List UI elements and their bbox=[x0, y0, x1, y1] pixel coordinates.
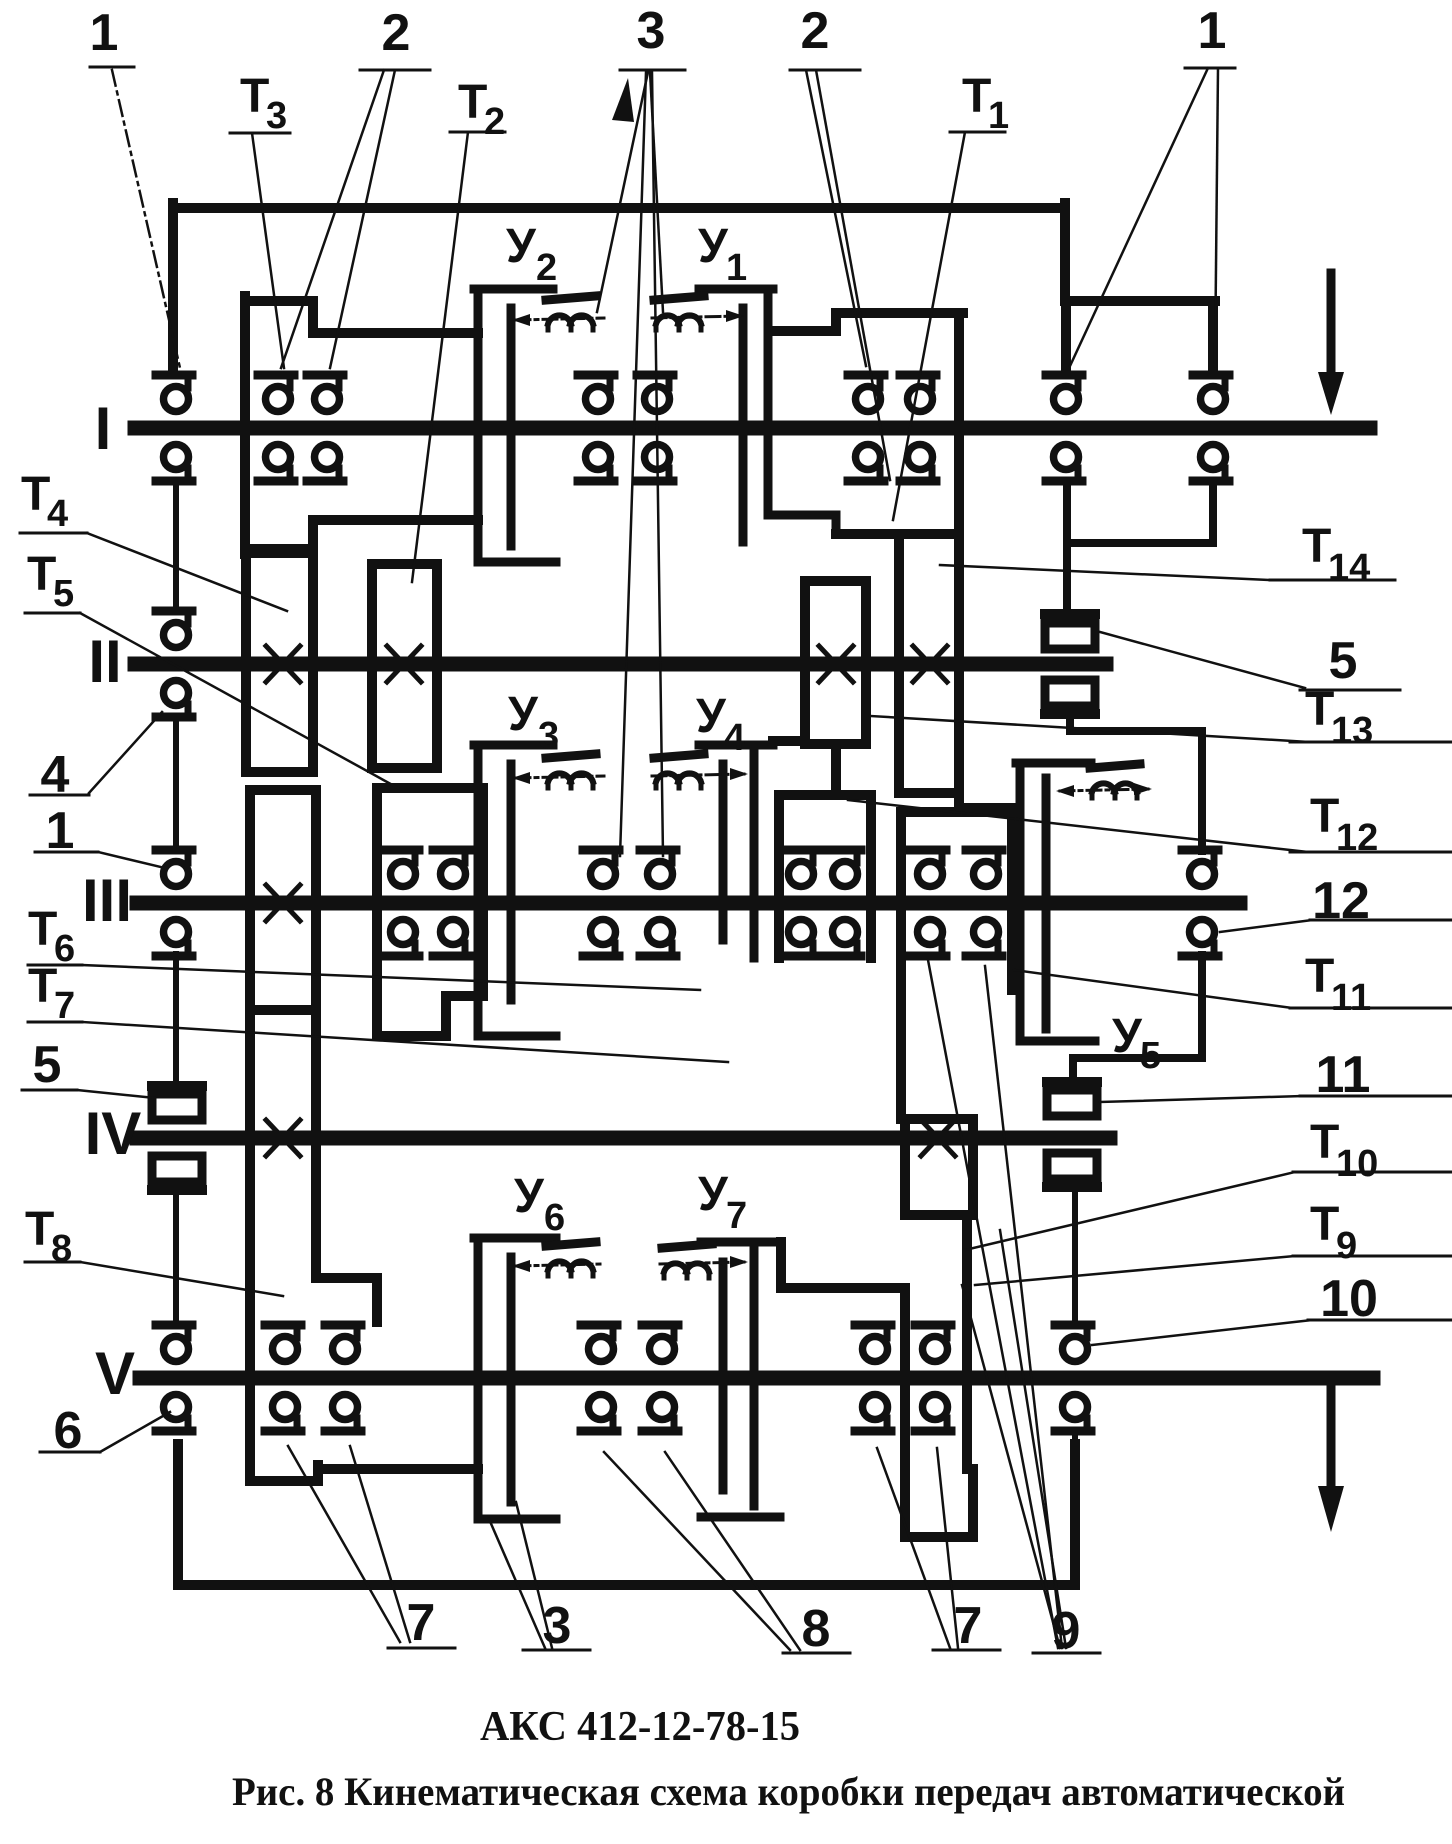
axis line right column bbox=[1072, 1191, 1078, 1585]
svg-text:3: 3 bbox=[538, 715, 559, 757]
leader 12 bbox=[1220, 920, 1312, 932]
bearing below shaft III x=603 bbox=[583, 920, 619, 957]
leader T9 bbox=[975, 1256, 1295, 1285]
leader 2 left bbox=[281, 70, 384, 368]
svg-text:11: 11 bbox=[1316, 1046, 1371, 1104]
svg-text:Т: Т bbox=[962, 70, 991, 123]
bearing below shaft V x=285 bbox=[265, 1395, 301, 1432]
bearing above shaft I x=1213 bbox=[1193, 375, 1229, 412]
bearing below shaft III x=1202 bbox=[1182, 920, 1218, 957]
bearing above shaft III x=845 bbox=[825, 850, 861, 887]
synchronizer cone x=1116 y=782 bbox=[1090, 764, 1140, 798]
svg-text:2: 2 bbox=[536, 247, 557, 289]
synchronizer U5 fork bbox=[1016, 763, 1095, 1041]
fixed joint X on shaft II x=836 bbox=[819, 646, 853, 682]
right X box at IV bbox=[905, 1119, 973, 1215]
leader 10 bbox=[1092, 1320, 1312, 1345]
svg-text:8: 8 bbox=[51, 1228, 72, 1270]
leader 5 right bbox=[1100, 632, 1305, 688]
svg-text:1: 1 bbox=[90, 4, 119, 62]
svg-text:Т: Т bbox=[28, 960, 57, 1013]
svg-text:7: 7 bbox=[54, 985, 75, 1027]
leader T4 bbox=[87, 533, 287, 611]
bearing below shaft III x=845 bbox=[825, 920, 861, 957]
synchronizer U4 fork bbox=[699, 745, 773, 958]
leader 3 top arrowhead bbox=[612, 78, 634, 122]
bearing above shaft I x=657 bbox=[637, 375, 673, 412]
svg-text:1: 1 bbox=[46, 802, 75, 860]
bearing above shaft III x=176 bbox=[156, 850, 192, 887]
svg-text:IV: IV bbox=[85, 1100, 142, 1167]
leader 6 bbox=[100, 1412, 170, 1452]
svg-text:АКС 412-12-78-15: АКС 412-12-78-15 bbox=[480, 1704, 800, 1750]
bearing below shaft V x=176 bbox=[156, 1395, 192, 1432]
bearing below shaft V x=935 bbox=[915, 1395, 951, 1432]
brake disc pack x=1070 y=693 bbox=[1045, 680, 1095, 706]
synchronizer U6 fork bbox=[474, 1238, 556, 1519]
brake pack right of shaft IV bbox=[1047, 1082, 1097, 1187]
fixed joint X on shaft III x=283 bbox=[266, 885, 300, 921]
svg-text:III: III bbox=[82, 867, 132, 934]
svg-text:2: 2 bbox=[801, 2, 830, 60]
bearing above shaft I x=1066 bbox=[1046, 375, 1082, 412]
bearing above shaft V x=1075 bbox=[1055, 1325, 1091, 1362]
bearing above shaft I x=598 bbox=[578, 375, 614, 412]
svg-text:1: 1 bbox=[726, 247, 747, 289]
leader T11 bbox=[1014, 970, 1292, 1008]
bearing below shaft V x=345 bbox=[325, 1395, 361, 1432]
synchronizer cone x=572 y=1260 bbox=[546, 1242, 596, 1276]
svg-text:4: 4 bbox=[724, 717, 745, 759]
leader T10 bbox=[965, 1172, 1295, 1250]
svg-text:4: 4 bbox=[47, 493, 68, 535]
bearing below shaft I x=278 bbox=[258, 445, 294, 482]
leader 1 top-left (dash-dot) bbox=[112, 70, 180, 368]
svg-text:У: У bbox=[696, 690, 727, 743]
fixed joint X on shaft IV x=283 bbox=[266, 1120, 300, 1156]
bearing above shaft I x=278 bbox=[258, 375, 294, 412]
bearing below shaft III x=403 bbox=[383, 920, 419, 957]
bearing above shaft III x=403 bbox=[383, 850, 419, 887]
svg-text:У: У bbox=[698, 1168, 729, 1221]
svg-text:У: У bbox=[1112, 1010, 1143, 1063]
leader T1 bbox=[893, 132, 965, 520]
bearing below shaft III x=660 bbox=[640, 920, 676, 957]
T10/T9 drum walls bottom right bbox=[781, 1215, 973, 1537]
T4 drum box bbox=[372, 564, 437, 768]
svg-text:Т: Т bbox=[1305, 950, 1334, 1003]
synchronizer cones row III bbox=[546, 754, 1140, 798]
bearing above shaft I x=920 bbox=[900, 375, 936, 412]
leader 2 right bbox=[806, 70, 866, 366]
sliding dash-dot arrows bbox=[512, 310, 1152, 1272]
bearing below shaft I x=868 bbox=[848, 445, 884, 482]
synchronizer cone x=680 y=772 bbox=[654, 754, 704, 788]
rollers shaft III bbox=[156, 850, 1218, 956]
svg-text:Т: Т bbox=[1302, 520, 1331, 573]
leaders 9 bottom bbox=[928, 960, 1058, 1648]
synchronizer U2 fork bbox=[474, 289, 556, 562]
leader T12 bbox=[848, 800, 1308, 852]
bearing above shaft III x=1202 bbox=[1182, 850, 1218, 887]
svg-text:Т: Т bbox=[240, 70, 269, 123]
svg-text:6: 6 bbox=[54, 1402, 83, 1460]
synchronizer cones row I bbox=[546, 296, 704, 330]
svg-text:Рис. 8 Кинематическая схема ко: Рис. 8 Кинематическая схема коробки пере… bbox=[232, 1769, 1345, 1814]
svg-text:9: 9 bbox=[1336, 1225, 1357, 1267]
bearing above shaft III x=801 bbox=[781, 850, 817, 887]
bearing above shaft III x=660 bbox=[640, 850, 676, 887]
svg-text:2: 2 bbox=[484, 101, 505, 143]
svg-text:Т: Т bbox=[1305, 683, 1334, 736]
svg-text:3: 3 bbox=[543, 1597, 572, 1655]
right link above shaft III bbox=[1070, 718, 1202, 851]
leader 4 bbox=[89, 712, 162, 793]
brake pack right of shaft II bbox=[1045, 614, 1095, 714]
leader T13 bbox=[870, 716, 1310, 742]
svg-text:Т: Т bbox=[25, 1203, 54, 1256]
below V left step drum bbox=[250, 1465, 478, 1481]
bearing below shaft I x=920 bbox=[900, 445, 936, 482]
leader T5 bbox=[80, 613, 398, 788]
svg-text:10: 10 bbox=[1336, 1143, 1378, 1185]
right link below shaft III bbox=[1073, 955, 1202, 1078]
bearing below shaft III x=176 bbox=[156, 920, 192, 957]
bearing below shaft III x=986 bbox=[966, 920, 1002, 957]
brake disc pack x=1072 y=1166 bbox=[1047, 1153, 1097, 1179]
svg-text:II: II bbox=[88, 628, 121, 695]
bearing above shaft V x=601 bbox=[581, 1325, 617, 1362]
svg-text:10: 10 bbox=[1320, 1270, 1378, 1328]
leader T6 bbox=[82, 965, 700, 990]
svg-text:5: 5 bbox=[1140, 1035, 1161, 1077]
bearing above shaft V x=345 bbox=[325, 1325, 361, 1362]
bearing below shaft V x=1075 bbox=[1055, 1395, 1091, 1432]
caption text bbox=[232, 1704, 1345, 1814]
bearing below shaft III x=453 bbox=[433, 920, 469, 957]
shaft IV bbox=[137, 1131, 1110, 1146]
svg-text:13: 13 bbox=[1331, 710, 1373, 752]
svg-text:3: 3 bbox=[266, 95, 287, 137]
fixed joint X on shaft II x=404 bbox=[387, 646, 421, 682]
synchronizer cone x=572 y=314 bbox=[546, 296, 596, 330]
synchronizer cones row V bbox=[546, 1242, 712, 1278]
bearing above shaft V x=935 bbox=[915, 1325, 951, 1362]
svg-text:2: 2 bbox=[382, 4, 411, 62]
svg-text:Т: Т bbox=[27, 548, 56, 601]
leader T7 bbox=[82, 1022, 728, 1062]
svg-text:1: 1 bbox=[1198, 2, 1227, 60]
X crosses bbox=[266, 646, 955, 1156]
bearing above shaft V x=662 bbox=[642, 1325, 678, 1362]
svg-text:У: У bbox=[514, 1170, 545, 1223]
leaders 3 bottom bbox=[489, 1519, 545, 1648]
synchronizer U7 fork bbox=[701, 1242, 780, 1517]
bearing above shaft III x=930 bbox=[910, 850, 946, 887]
T14 drum box bbox=[836, 534, 958, 793]
brake disc pack x=177 y=1169 bbox=[152, 1156, 202, 1182]
input arrow bbox=[1318, 273, 1344, 415]
svg-text:3: 3 bbox=[637, 2, 666, 60]
left tall box B bbox=[250, 790, 377, 1467]
svg-text:I: I bbox=[95, 395, 112, 462]
leader T14 bbox=[940, 565, 1268, 580]
bearing below shaft III x=801 bbox=[781, 920, 817, 957]
bearing below shaft V x=875 bbox=[855, 1395, 891, 1432]
housing bottom bbox=[178, 1444, 1075, 1585]
bearing above shaft III x=986 bbox=[966, 850, 1002, 887]
leaders 7 bottom-right bbox=[877, 1448, 950, 1648]
svg-text:4: 4 bbox=[41, 746, 70, 804]
T13 drum box bbox=[805, 581, 866, 744]
brake disc pack x=1070 y=636 bbox=[1045, 623, 1095, 649]
svg-text:У: У bbox=[508, 688, 539, 741]
brake pack left of shaft IV bbox=[152, 1086, 202, 1190]
bearing below shaft V x=662 bbox=[642, 1395, 678, 1432]
axis line left column x=176 bbox=[173, 487, 179, 1322]
svg-text:5: 5 bbox=[1329, 632, 1358, 690]
bearing above shaft I x=176 bbox=[156, 375, 192, 412]
svg-text:Т: Т bbox=[1310, 790, 1339, 843]
svg-text:14: 14 bbox=[1328, 547, 1370, 589]
svg-text:12: 12 bbox=[1336, 817, 1378, 859]
bearing above shaft III x=603 bbox=[583, 850, 619, 887]
svg-text:1: 1 bbox=[988, 95, 1009, 137]
synchronizer U1 fork bbox=[699, 289, 836, 542]
leader T8 bbox=[80, 1262, 283, 1296]
bearing below shaft I x=657 bbox=[637, 445, 673, 482]
brake disc pack x=177 y=1107 bbox=[152, 1094, 202, 1120]
svg-text:9: 9 bbox=[1052, 1602, 1081, 1660]
bearing below shaft I x=327 bbox=[307, 445, 343, 482]
svg-text:5: 5 bbox=[53, 573, 74, 615]
fixed joint X on shaft II x=930 bbox=[913, 646, 947, 682]
shaft II bbox=[135, 657, 1106, 672]
bearing above shaft V x=285 bbox=[265, 1325, 301, 1362]
svg-text:Т: Т bbox=[458, 76, 487, 129]
T3 clutch drum bbox=[245, 296, 478, 554]
svg-text:5: 5 bbox=[33, 1036, 62, 1094]
rollers shaft II bbox=[156, 611, 192, 717]
bearing above shaft V x=176 bbox=[156, 1325, 192, 1362]
bearing above shaft V x=875 bbox=[855, 1325, 891, 1362]
fixed joint X on shaft II x=283 bbox=[266, 646, 300, 682]
bearing above shaft I x=327 bbox=[307, 375, 343, 412]
T12 drum walls bbox=[773, 741, 871, 958]
svg-text:Т: Т bbox=[21, 468, 50, 521]
leader 1 right bbox=[1070, 68, 1208, 366]
output arrow bbox=[1318, 1388, 1344, 1532]
bearing above shaft II x=176 bbox=[156, 611, 192, 648]
bearing below shaft V x=601 bbox=[581, 1395, 617, 1432]
brake disc pack x=1072 y=1103 bbox=[1047, 1090, 1097, 1116]
bearing below shaft I x=176 bbox=[156, 445, 192, 482]
leaders 8 bottom bbox=[604, 1452, 790, 1650]
synchronizer cone x=680 y=314 bbox=[654, 296, 704, 330]
shaft III bbox=[137, 896, 1240, 911]
synchronizer cone x=572 y=772 bbox=[546, 754, 596, 788]
svg-text:7: 7 bbox=[407, 1594, 436, 1652]
leader T2 bbox=[412, 132, 468, 582]
leader T3 bbox=[252, 133, 284, 368]
bearing above shaft I x=868 bbox=[848, 375, 884, 412]
svg-text:7: 7 bbox=[726, 1195, 747, 1237]
leader 3 top bbox=[597, 72, 648, 312]
T2 drum walls above shaft I right bbox=[773, 313, 1016, 808]
svg-text:У: У bbox=[698, 220, 729, 273]
bearing above shaft III x=453 bbox=[433, 850, 469, 887]
rollers shaft I bbox=[156, 375, 1229, 481]
leader 5 left bbox=[77, 1090, 155, 1098]
synchronizer U3 fork bbox=[474, 745, 556, 1036]
shaft V bbox=[140, 1371, 1373, 1386]
rollers shaft V bbox=[156, 1325, 1091, 1431]
bearing below shaft I x=1066 bbox=[1046, 445, 1082, 482]
shaft I bbox=[135, 421, 1370, 436]
leader 1 left bbox=[98, 852, 165, 868]
synchronizer cone x=688 y=1262 bbox=[662, 1244, 712, 1278]
svg-text:V: V bbox=[95, 1340, 135, 1407]
svg-text:Т: Т bbox=[28, 903, 57, 956]
T5 drum walls below II bbox=[377, 788, 483, 1036]
svg-text:7: 7 bbox=[954, 1597, 983, 1655]
left X box between I and II bbox=[246, 553, 313, 772]
housing top bbox=[173, 203, 1215, 371]
leaders 7 bottom-left bbox=[288, 1446, 400, 1642]
bearing below shaft I x=1213 bbox=[1193, 445, 1229, 482]
svg-text:У: У bbox=[506, 220, 537, 273]
svg-text:8: 8 bbox=[802, 1600, 831, 1658]
svg-text:Т: Т bbox=[1310, 1198, 1339, 1251]
fixed joint X on shaft IV x=938 bbox=[921, 1120, 955, 1156]
bearing below shaft II x=176 bbox=[156, 681, 192, 718]
svg-text:Т: Т bbox=[1310, 1116, 1339, 1169]
leader 11 bbox=[1100, 1096, 1302, 1102]
svg-text:6: 6 bbox=[544, 1197, 565, 1239]
bearing below shaft I x=598 bbox=[578, 445, 614, 482]
leader lines bbox=[77, 68, 1312, 1650]
bearing below shaft III x=930 bbox=[910, 920, 946, 957]
right link below shaft I bbox=[1067, 487, 1213, 609]
T11 drum walls bbox=[901, 812, 1012, 1119]
svg-text:11: 11 bbox=[1331, 977, 1371, 1019]
svg-text:12: 12 bbox=[1312, 872, 1370, 930]
